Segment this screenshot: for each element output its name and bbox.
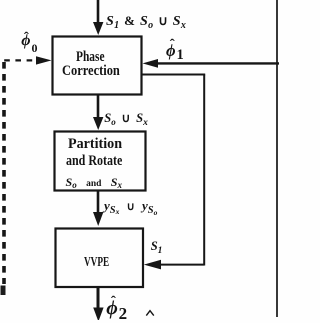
label: So and Sx (inside Partition box)	[66, 176, 123, 190]
block U3: VVPE box	[56, 229, 144, 288]
arrowhead: into VVPE	[93, 212, 103, 226]
arrowhead: phi1 into Phase Correction	[143, 59, 159, 68]
label: Phase Correction box text line 2	[62, 64, 120, 79]
label: VVPE box text	[84, 256, 109, 270]
wire: phi1 feedback horizontal line	[158, 62, 279, 64]
label: phi1 greek letter	[166, 43, 176, 60]
wire: right vertical feedback line	[276, 0, 278, 317]
wire: VVPE output downward	[97, 287, 100, 309]
arrowhead: phi2 output	[93, 308, 103, 322]
label: phi1 subscript	[177, 48, 184, 63]
block U2: Partition and Rotate box	[55, 132, 146, 191]
label: phi2 hat symbol	[111, 295, 116, 310]
label: phi0 greek letter	[21, 33, 30, 49]
wire: Partition and Rotate to VVPE	[97, 190, 100, 214]
label: S1 (into VVPE)	[151, 240, 163, 254]
label: Partition and Rotate box text line 2	[66, 154, 122, 169]
block U1: Phase Correction box	[53, 37, 142, 95]
wire: top input line into Phase Correction	[97, 0, 100, 24]
arrowhead: S1 into VVPE	[144, 260, 161, 270]
label: S1 & So u Sx (top input)	[106, 14, 186, 29]
wire: Phase Correction to Partition and Rotate	[97, 94, 100, 119]
label: phi1 hat symbol	[170, 38, 175, 53]
label: ySx u ySo (into VVPE)	[104, 199, 157, 214]
arrowhead: into Partition and Rotate	[93, 117, 103, 130]
label: Partition and Rotate box text line 1	[68, 137, 122, 152]
label: phi0 hat symbol	[24, 31, 29, 46]
label: phi2 subscript	[119, 305, 128, 322]
arrowhead: phi0 into Phase Correction	[36, 56, 52, 64]
label: phi0 subscript	[32, 42, 38, 54]
label: So u Sx (into Partition)	[104, 112, 148, 126]
wire: dashed vertical line at left edge	[2, 62, 6, 284]
label: phi2 greek letter	[106, 298, 118, 318]
label: Phase Correction box text line 1	[76, 50, 105, 65]
wire: S1 feedback from Phase Correction, horizontal top segment	[142, 74, 205, 76]
label: partial hat of cropped phi at bottom right	[146, 311, 154, 316]
wire: S1 feedback horizontal into VVPE	[160, 264, 204, 266]
wire: S1 feedback vertical segment	[203, 75, 205, 266]
wire: dashed phi0 input arrow (horizontal)	[4, 59, 39, 61]
arrowhead: top input into Phase Correction	[93, 22, 103, 35]
wire: last dark dash of dashed vertical	[1, 286, 6, 296]
